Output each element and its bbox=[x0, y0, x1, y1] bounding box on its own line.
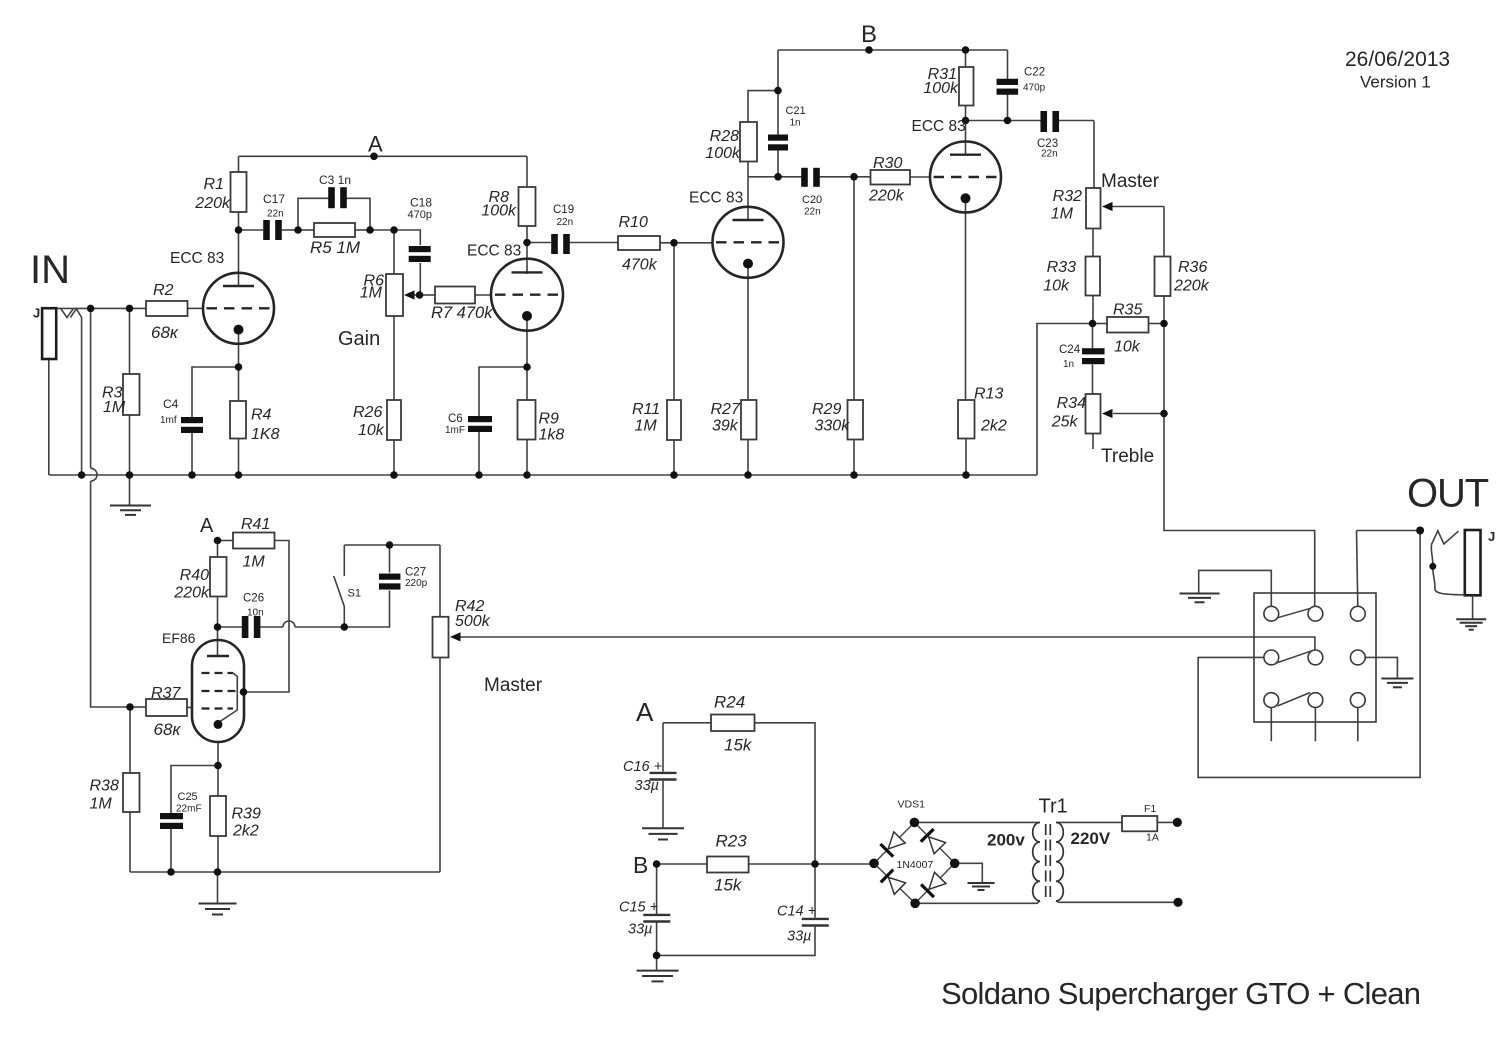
svg-text:ECC 83: ECC 83 bbox=[467, 243, 521, 260]
svg-text:Gain: Gain bbox=[338, 328, 380, 350]
svg-text:A: A bbox=[636, 697, 654, 727]
svg-text:C17: C17 bbox=[263, 192, 285, 206]
svg-text:1N4007: 1N4007 bbox=[897, 859, 934, 871]
svg-text:R36: R36 bbox=[1178, 259, 1207, 276]
svg-text:1M: 1M bbox=[90, 796, 113, 813]
svg-text:Master: Master bbox=[484, 675, 543, 696]
svg-text:22n: 22n bbox=[557, 217, 574, 228]
svg-text:C3 1n: C3 1n bbox=[319, 173, 351, 187]
svg-text:ECC 83: ECC 83 bbox=[170, 250, 224, 267]
svg-text:200v: 200v bbox=[987, 831, 1025, 850]
svg-text:A: A bbox=[200, 515, 214, 537]
svg-text:500k: 500k bbox=[455, 613, 491, 630]
svg-text:1M: 1M bbox=[243, 554, 266, 571]
svg-text:15k: 15k bbox=[714, 876, 743, 895]
svg-text:R5 1M: R5 1M bbox=[310, 238, 361, 257]
svg-text:F1: F1 bbox=[1144, 803, 1156, 815]
svg-text:A: A bbox=[368, 132, 383, 157]
svg-text:10n: 10n bbox=[247, 608, 264, 619]
svg-text:R10: R10 bbox=[619, 214, 648, 231]
svg-text:10k: 10k bbox=[358, 422, 385, 439]
svg-text:1M: 1M bbox=[1051, 206, 1074, 223]
svg-text:R41: R41 bbox=[241, 516, 270, 533]
svg-text:J: J bbox=[1488, 529, 1495, 544]
svg-text:2k2: 2k2 bbox=[980, 418, 1007, 435]
svg-text:C22: C22 bbox=[1024, 67, 1045, 79]
svg-text:1M: 1M bbox=[103, 399, 126, 416]
svg-text:220V: 220V bbox=[1071, 829, 1111, 848]
svg-text:R35: R35 bbox=[1113, 302, 1142, 319]
svg-text:22mF: 22mF bbox=[176, 804, 202, 815]
svg-text:C18: C18 bbox=[410, 196, 432, 210]
svg-text:B: B bbox=[633, 852, 648, 878]
svg-text:Master: Master bbox=[1101, 171, 1160, 192]
svg-text:R26: R26 bbox=[353, 404, 382, 421]
svg-text:1K8: 1K8 bbox=[251, 426, 280, 443]
svg-text:330k: 330k bbox=[815, 418, 851, 435]
svg-text:C15 +: C15 + bbox=[619, 900, 658, 916]
svg-text:R13: R13 bbox=[974, 386, 1003, 403]
svg-text:15k: 15k bbox=[724, 736, 753, 755]
svg-text:68к: 68к bbox=[151, 323, 179, 342]
svg-text:S1: S1 bbox=[348, 588, 361, 600]
svg-text:C21: C21 bbox=[786, 105, 806, 117]
svg-text:1k8: 1k8 bbox=[539, 427, 565, 444]
svg-text:25k: 25k bbox=[1051, 414, 1079, 431]
svg-text:R37: R37 bbox=[151, 685, 181, 702]
svg-text:R9: R9 bbox=[539, 411, 560, 428]
svg-text:C19: C19 bbox=[553, 204, 574, 216]
svg-text:C16 +: C16 + bbox=[623, 759, 662, 775]
svg-text:C6: C6 bbox=[448, 413, 463, 425]
svg-text:22n: 22n bbox=[267, 209, 284, 220]
svg-text:1M: 1M bbox=[635, 418, 658, 435]
svg-text:220k: 220k bbox=[194, 195, 231, 212]
svg-text:C4: C4 bbox=[163, 397, 179, 411]
svg-text:33µ: 33µ bbox=[635, 778, 659, 794]
svg-text:100k: 100k bbox=[705, 145, 741, 162]
svg-text:EF86: EF86 bbox=[162, 630, 196, 646]
svg-text:ECC 83: ECC 83 bbox=[912, 118, 966, 135]
svg-text:R7 470k: R7 470k bbox=[431, 304, 493, 322]
svg-text:VDS1: VDS1 bbox=[898, 799, 926, 811]
svg-text:C14 +: C14 + bbox=[777, 904, 816, 920]
svg-text:ECC 83: ECC 83 bbox=[689, 190, 743, 207]
svg-text:C20: C20 bbox=[802, 194, 822, 206]
svg-text:B: B bbox=[861, 21, 877, 48]
svg-text:1mF: 1mF bbox=[445, 425, 465, 436]
svg-text:33µ: 33µ bbox=[787, 929, 811, 945]
svg-text:Treble: Treble bbox=[1101, 446, 1154, 467]
svg-text:1M: 1M bbox=[360, 285, 383, 302]
svg-text:470p: 470p bbox=[1023, 83, 1046, 94]
svg-text:39k: 39k bbox=[712, 418, 739, 435]
svg-text:R39: R39 bbox=[232, 806, 261, 823]
svg-text:R1: R1 bbox=[204, 176, 224, 193]
svg-text:R28: R28 bbox=[710, 128, 739, 145]
svg-text:C27: C27 bbox=[405, 567, 426, 579]
svg-text:IN: IN bbox=[30, 248, 70, 292]
svg-text:R2: R2 bbox=[153, 282, 174, 299]
svg-text:R23: R23 bbox=[716, 832, 748, 851]
svg-text:1A: 1A bbox=[1146, 832, 1159, 844]
svg-text:R27: R27 bbox=[711, 401, 741, 418]
svg-text:Version 1: Version 1 bbox=[1360, 73, 1431, 92]
svg-text:470p: 470p bbox=[408, 209, 432, 221]
svg-text:22n: 22n bbox=[1041, 149, 1058, 160]
svg-text:Soldano Supercharger GTO + Cle: Soldano Supercharger GTO + Clean bbox=[941, 976, 1420, 1011]
svg-text:1mf: 1mf bbox=[160, 415, 177, 426]
svg-text:R33: R33 bbox=[1047, 259, 1076, 276]
svg-text:R24: R24 bbox=[714, 693, 745, 712]
svg-text:100k: 100k bbox=[923, 80, 959, 97]
svg-text:R30: R30 bbox=[873, 155, 902, 172]
svg-text:R11: R11 bbox=[632, 401, 660, 418]
svg-text:220k: 220k bbox=[1173, 278, 1210, 295]
svg-text:J: J bbox=[33, 306, 40, 321]
svg-text:10k: 10k bbox=[1114, 339, 1141, 356]
svg-text:470k: 470k bbox=[622, 257, 658, 274]
svg-text:68к: 68к bbox=[154, 720, 182, 739]
svg-text:R40: R40 bbox=[180, 567, 209, 584]
svg-text:220p: 220p bbox=[405, 578, 428, 589]
svg-text:C26: C26 bbox=[243, 593, 264, 605]
svg-text:R34: R34 bbox=[1057, 395, 1086, 412]
svg-text:100k: 100k bbox=[481, 203, 517, 220]
svg-text:R38: R38 bbox=[90, 778, 119, 795]
svg-text:220k: 220k bbox=[173, 585, 210, 602]
svg-text:C25: C25 bbox=[178, 791, 198, 803]
svg-text:OUT: OUT bbox=[1407, 472, 1489, 516]
svg-text:22n: 22n bbox=[804, 207, 821, 218]
svg-text:33µ: 33µ bbox=[628, 922, 652, 938]
svg-text:R29: R29 bbox=[812, 401, 841, 418]
svg-text:2k2: 2k2 bbox=[232, 823, 259, 840]
svg-text:10k: 10k bbox=[1043, 278, 1070, 295]
svg-text:R4: R4 bbox=[251, 407, 272, 424]
svg-text:1n: 1n bbox=[790, 118, 801, 129]
svg-text:C24: C24 bbox=[1059, 344, 1081, 356]
svg-text:220k: 220k bbox=[868, 188, 905, 205]
svg-text:Tr1: Tr1 bbox=[1039, 796, 1068, 818]
svg-text:1n: 1n bbox=[1063, 359, 1074, 370]
svg-text:26/06/2013: 26/06/2013 bbox=[1345, 48, 1450, 71]
svg-text:R32: R32 bbox=[1053, 188, 1082, 205]
